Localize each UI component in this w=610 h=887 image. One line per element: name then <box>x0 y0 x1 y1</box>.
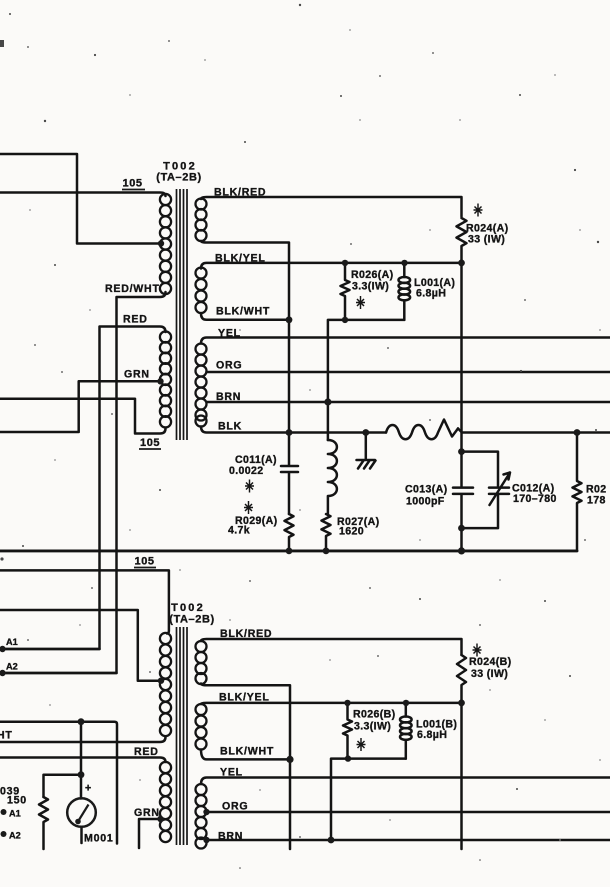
svg-text:GRN: GRN <box>134 807 160 819</box>
svg-text:6.8µH: 6.8µH <box>416 288 446 300</box>
wire ORG (A) <box>207 371 610 374</box>
node R024(B) bottom <box>458 700 465 707</box>
capacitor C013(A) 1000pF <box>453 488 473 551</box>
wire node vertical BLK/WHT to BLK line <box>288 320 291 433</box>
node C013 box bottom <box>458 525 465 532</box>
wire secondary S1 bottom to BLK/WHT node <box>201 241 289 320</box>
wire BLK/WHT (A) <box>201 314 289 320</box>
box branch with variable capacitor C012(A) 170-780 <box>462 452 510 528</box>
wire BLK/YEL (B) <box>201 703 462 704</box>
node L001(A) top <box>401 260 407 266</box>
svg-text:BLK/YEL: BLK/YEL <box>219 692 270 704</box>
wire meter top from left edge <box>0 722 117 844</box>
wire R024(A) node down to C013 box <box>460 263 463 487</box>
resistor R024(B) 33(1W) <box>457 655 466 703</box>
svg-text:3.3(IW): 3.3(IW) <box>354 721 391 733</box>
svg-text:BLK/YEL: BLK/YEL <box>215 253 266 265</box>
svg-text:BLK/WHT: BLK/WHT <box>220 746 274 758</box>
node combo vert on BRN <box>324 398 331 405</box>
star symbol at R024(B) <box>473 644 482 657</box>
svg-text:BRN: BRN <box>218 831 243 843</box>
inductor choke on R027 branch <box>328 440 337 514</box>
svg-text:4.7k: 4.7k <box>228 525 250 537</box>
wire GRN (B) tap down <box>139 819 161 848</box>
svg-text:ORG: ORG <box>222 801 248 813</box>
node R026(B) top <box>344 700 350 706</box>
star symbol C011 lower <box>244 501 253 514</box>
transformer T002(B) secondary winding section3 <box>196 784 207 849</box>
node BLK/WHT B <box>286 756 293 763</box>
inductor L001(B) 6.8uH <box>405 703 408 717</box>
star symbol C011 upper <box>245 480 254 493</box>
node R026(A) bottom <box>342 317 348 323</box>
node R026(A) top <box>342 260 348 266</box>
meter needle pivot <box>75 819 81 825</box>
wire RED/WHT from T002(A) primary to A2 terminal <box>3 292 166 673</box>
transformer T002(B) secondary winding section2 <box>196 704 207 750</box>
wire 105 (A) top-left to T002(A) primary top <box>0 193 166 197</box>
resistor R026(A) 3.3(1W) <box>341 263 350 320</box>
bus wire bottom of circuit A <box>0 549 577 552</box>
svg-text:105: 105 <box>135 556 155 568</box>
node primary tap A <box>158 240 164 246</box>
node bus x326 <box>323 548 330 555</box>
node ORG tap B <box>203 809 209 815</box>
resistor R029(A) 4.7k <box>285 514 294 551</box>
wire RED/WHT (B) left edge to primary section1 bottom <box>0 737 166 742</box>
svg-text:(TA–2B): (TA–2B) <box>169 614 215 626</box>
star symbol at R024(A) <box>474 204 483 217</box>
wire GRN (A) from primary tap to left edge <box>0 381 161 432</box>
wire BRN (B) <box>207 839 610 842</box>
junction dots circuit A <box>157 240 580 554</box>
wire meter to R039 <box>44 775 82 797</box>
capacitor C011(A) 0.0022 <box>281 433 298 515</box>
transformer T002(A) secondary winding section3 <box>196 344 207 427</box>
svg-text:A1: A1 <box>9 809 21 819</box>
wire combo(B) bottom <box>331 759 406 840</box>
svg-text:BLK/RED: BLK/RED <box>220 628 272 640</box>
svg-text:R024(B): R024(B) <box>469 656 511 668</box>
node bus x289 <box>286 548 293 555</box>
node BRN tap B <box>203 837 209 843</box>
svg-text:BLK/RED: BLK/RED <box>214 187 266 199</box>
wire 105 (A) bottom from left edge to primary bottom <box>0 399 166 434</box>
wire YEL (A) <box>201 338 610 344</box>
transformer T002(A) primary winding section1 <box>160 194 171 294</box>
svg-text:(TA–2B): (TA–2B) <box>156 172 202 184</box>
node meter top <box>78 718 85 725</box>
wire BLK/YEL (A) <box>201 263 462 269</box>
wire meter node vertical <box>80 722 83 799</box>
wire left edge to T002(B) primary tap <box>0 610 159 681</box>
star symbol below R026(B) <box>357 738 366 751</box>
svg-text:1620: 1620 <box>339 526 364 538</box>
svg-text:YEL: YEL <box>218 328 241 340</box>
svg-text:ORG: ORG <box>216 360 242 372</box>
transformer T002(A) primary winding section2 <box>160 331 171 427</box>
arrow of variable capacitor C012(A) <box>490 473 511 506</box>
wire BRN (A) <box>207 401 610 404</box>
svg-text:A2: A2 <box>9 831 21 841</box>
wire secondary S1(B) bottom to BLK/WHT node <box>201 684 290 760</box>
svg-text:178: 178 <box>587 495 606 507</box>
wire YEL (B) <box>201 778 610 785</box>
svg-text:170–780: 170–780 <box>513 493 557 505</box>
svg-text:+: + <box>85 783 92 795</box>
node GRN tap B <box>157 816 163 822</box>
node A2 terminal <box>0 670 6 676</box>
node meter R039 <box>78 771 85 778</box>
meter M001 body <box>67 798 96 827</box>
svg-text:R026(B): R026(B) <box>353 709 395 721</box>
resistor R027(A) 1620 <box>322 514 331 551</box>
wire A1 <box>3 648 100 651</box>
svg-text:3.3(IW): 3.3(IW) <box>352 281 389 293</box>
svg-text:BLK: BLK <box>218 421 242 433</box>
node C013 box top <box>458 448 465 455</box>
meter M001 bottom lead <box>80 827 83 843</box>
node combo(B) on BRN <box>328 837 335 844</box>
svg-text:RED: RED <box>123 314 148 326</box>
svg-text:HT: HT <box>0 730 13 742</box>
wire A2 <box>3 672 117 675</box>
svg-text:A1: A1 <box>6 637 18 647</box>
node A1 label dot <box>1 809 7 815</box>
svg-text:BRN: BRN <box>216 391 241 403</box>
transformer T002(A) core <box>177 189 188 440</box>
wire R024(B) node down <box>460 703 463 849</box>
wire top feed from left edge to primary tap of T002(A) <box>0 154 158 244</box>
node GRN tap A <box>157 378 163 384</box>
wire BLK/RED (A) <box>201 197 462 217</box>
inductor L001(A) 6.8uH <box>403 263 406 277</box>
meter needle <box>78 805 89 822</box>
wire combo(A) bottom <box>328 320 404 440</box>
svg-text:C013(A): C013(A) <box>405 484 447 496</box>
wire BLK (A) with hand-drawn squiggle <box>201 427 386 433</box>
svg-text:T002: T002 <box>171 602 205 614</box>
node ground on BLK <box>362 429 369 436</box>
wire 105 (B) from left edge to T002(B) primary top <box>0 570 169 633</box>
transformer T002(A) secondary winding section1 <box>196 199 207 242</box>
node BLK/WHT A <box>286 316 293 323</box>
resistor R024(A) 33(1W) <box>457 218 467 263</box>
svg-text:0.0022: 0.0022 <box>229 465 264 477</box>
svg-text:33 (IW): 33 (IW) <box>468 234 505 246</box>
svg-text:105: 105 <box>123 178 143 190</box>
svg-text:BLK/WHT: BLK/WHT <box>216 306 270 318</box>
transformer T002(B) primary winding section2 <box>160 762 171 842</box>
wire BLK/WHT(B) node down <box>289 759 292 849</box>
svg-text:RED/WHT: RED/WHT <box>105 283 160 295</box>
wire ORG (B) <box>207 811 610 814</box>
transformer T002(A) secondary winding section2 <box>196 268 207 314</box>
node R024(A) bottom <box>458 260 465 267</box>
svg-text:A2: A2 <box>6 662 18 672</box>
transformer T002(B) core <box>177 627 188 845</box>
resistor R026(B) 3.3(1W) <box>343 703 352 759</box>
wire BLK/RED (B) <box>201 639 462 655</box>
wire BLK/WHT (B) <box>201 750 290 760</box>
star symbol below R026(A) <box>356 296 365 309</box>
svg-text:33 (IW): 33 (IW) <box>471 668 508 680</box>
node primary tap B <box>158 678 164 684</box>
svg-text:150: 150 <box>7 795 27 807</box>
node A1 terminal <box>0 646 6 652</box>
svg-text:1000pF: 1000pF <box>406 496 445 508</box>
svg-text:RED: RED <box>134 746 159 758</box>
transformer T002(B) secondary winding section1 <box>196 641 207 684</box>
node R026(B) bottom <box>345 755 351 761</box>
node L001(B) top <box>403 700 409 706</box>
transformer T002(B) primary winding section1 <box>160 633 171 736</box>
svg-text:GRN: GRN <box>124 369 150 381</box>
svg-text:105: 105 <box>140 437 160 449</box>
svg-text:R026(A): R026(A) <box>351 269 393 281</box>
ground on BLK line <box>357 433 376 469</box>
resistor R039 150 <box>39 797 48 849</box>
node A2 label dot <box>1 831 7 837</box>
node R02 top on BLK <box>574 429 581 436</box>
svg-text:YEL: YEL <box>220 767 243 779</box>
resistor R02.. 178 from BLK line to bus <box>573 433 582 551</box>
node C011 top on BLK <box>286 429 293 436</box>
svg-text:6.8µH: 6.8µH <box>417 729 447 741</box>
wire RED (B) left edge to primary section2 top <box>0 758 166 763</box>
junction dots circuit B <box>0 646 465 844</box>
wire RED from T002(A) primary section2 top to A1 terminal <box>3 327 166 650</box>
svg-text:M001: M001 <box>84 833 114 845</box>
node bus x461 <box>458 547 465 554</box>
